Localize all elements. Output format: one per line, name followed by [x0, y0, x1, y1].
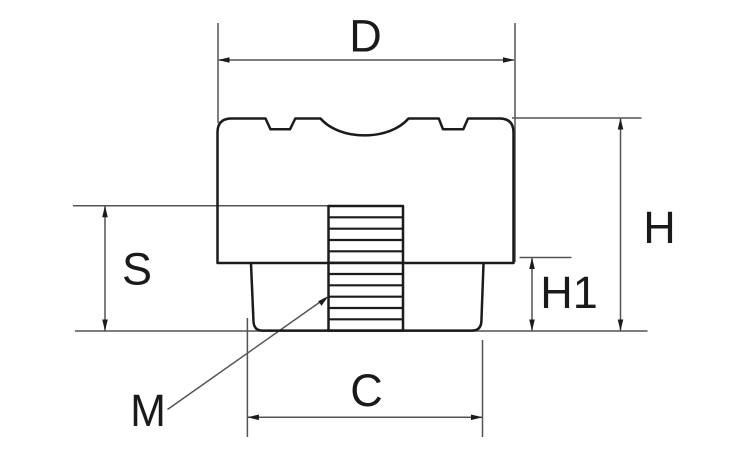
M leader line — [168, 299, 326, 410]
H1 arrowhead bottom — [529, 320, 535, 332]
D arrowhead left — [218, 57, 230, 63]
svg-text:D: D — [349, 11, 382, 62]
H extension line top — [512, 117, 642, 119]
S arrowhead bottom — [102, 320, 108, 332]
S arrowhead top — [102, 206, 108, 218]
svg-text:H: H — [643, 202, 676, 253]
thread line 9 — [329, 307, 404, 309]
thread line 7 — [329, 284, 404, 286]
H1 dimension line — [531, 258, 533, 331]
svg-text:H1: H1 — [540, 267, 598, 318]
baseline extension line bottom — [75, 330, 648, 332]
M leader arrowhead — [318, 296, 328, 306]
thread line 2 — [329, 228, 404, 230]
C extension line left — [246, 318, 248, 437]
thread line 3 — [329, 239, 404, 241]
svg-text:C: C — [350, 365, 383, 416]
boss (lower hub) outline — [251, 264, 484, 331]
thread line 4 — [329, 250, 404, 252]
thread line 10 — [329, 318, 404, 320]
H1 arrowhead top — [529, 258, 535, 270]
D extension line left — [217, 23, 219, 123]
D arrowhead right — [503, 57, 515, 63]
knob body outline — [218, 119, 514, 264]
thread line 6 — [329, 273, 404, 275]
S extension line top — [73, 205, 329, 207]
S dimension line — [104, 207, 106, 331]
thread line 8 — [329, 296, 404, 298]
svg-text:M: M — [130, 386, 166, 436]
thread line 5 — [329, 262, 404, 264]
C arrowhead left — [247, 415, 259, 421]
C extension line right — [482, 340, 484, 437]
D dimension line — [219, 59, 514, 61]
H arrowhead bottom — [618, 320, 624, 332]
thread line 1 — [329, 216, 404, 218]
C dimension line — [248, 416, 482, 418]
H dimension line — [620, 119, 622, 331]
H1 extension line — [520, 257, 572, 259]
svg-text:S: S — [122, 243, 152, 294]
H arrowhead top — [618, 118, 624, 130]
C arrowhead right — [471, 415, 483, 421]
threaded hole rectangle — [329, 206, 404, 331]
D extension line right — [514, 23, 516, 262]
